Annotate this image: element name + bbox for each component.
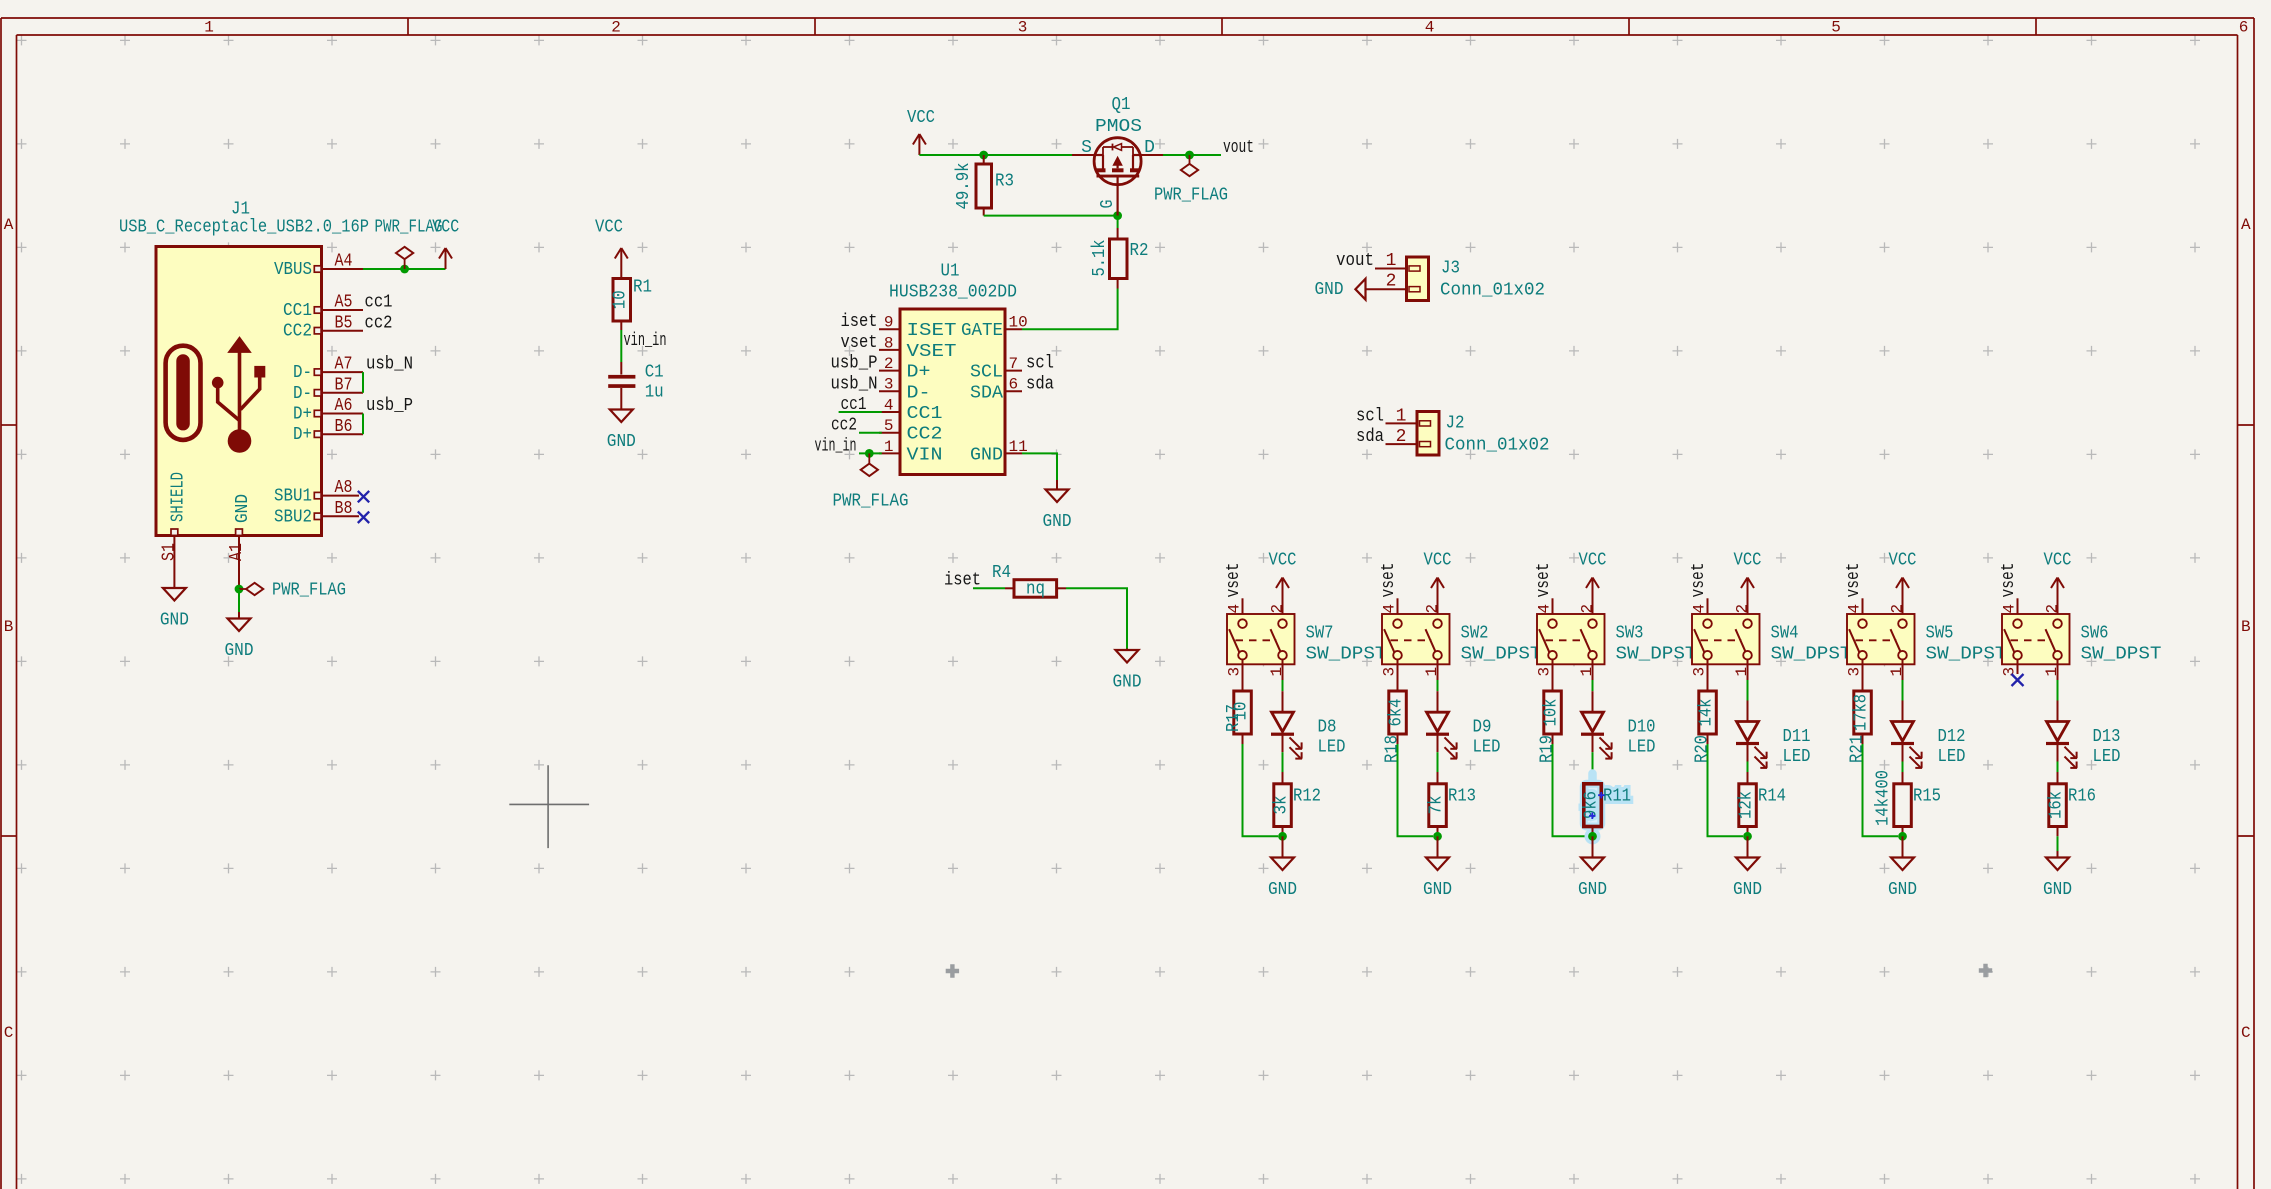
svg-text:CC1: CC1	[283, 301, 312, 321]
svg-text:PMOS: PMOS	[1095, 117, 1142, 137]
svg-text:1: 1	[204, 19, 214, 37]
svg-text:6: 6	[1009, 376, 1019, 394]
svg-text:B8: B8	[335, 499, 353, 519]
svg-text:SW3: SW3	[1616, 624, 1644, 644]
svg-text:GND: GND	[1268, 880, 1297, 900]
svg-text:G: G	[1098, 200, 1118, 209]
svg-text:D+: D+	[907, 363, 931, 383]
svg-text:10: 10	[1232, 702, 1252, 721]
svg-text:vout: vout	[1336, 251, 1374, 271]
svg-text:6k4: 6k4	[1387, 699, 1407, 727]
svg-text:2: 2	[1734, 604, 1752, 614]
svg-text:R4: R4	[992, 563, 1011, 583]
svg-text:3: 3	[884, 376, 894, 394]
svg-text:VCC: VCC	[1269, 551, 1297, 571]
svg-text:4: 4	[1691, 604, 1709, 614]
svg-text:PWR_FLAG: PWR_FLAG	[1154, 186, 1228, 206]
svg-text:1: 1	[2043, 667, 2061, 677]
svg-text:2: 2	[884, 355, 894, 373]
svg-text:D-: D-	[907, 383, 931, 403]
svg-text:R16: R16	[2068, 787, 2096, 807]
svg-text:7: 7	[1009, 355, 1019, 373]
svg-text:A7: A7	[335, 355, 353, 375]
svg-text:8: 8	[884, 334, 894, 352]
svg-text:R3: R3	[995, 172, 1014, 192]
svg-text:usb_N: usb_N	[831, 374, 878, 394]
svg-text:GATE: GATE	[961, 321, 1003, 341]
svg-text:2: 2	[1579, 604, 1597, 614]
svg-text:C1: C1	[645, 363, 664, 383]
svg-text:B: B	[2241, 618, 2251, 636]
svg-text:D+: D+	[293, 405, 312, 425]
svg-text:A6: A6	[335, 396, 353, 416]
svg-text:3: 3	[1018, 19, 1028, 37]
svg-text:4: 4	[1226, 604, 1244, 614]
svg-text:R2: R2	[1130, 241, 1149, 261]
svg-text:GND: GND	[1423, 880, 1452, 900]
svg-text:CC1: CC1	[907, 404, 943, 424]
svg-text:SW_DPST: SW_DPST	[1306, 645, 1387, 665]
svg-text:SW7: SW7	[1306, 624, 1334, 644]
svg-text:2: 2	[1396, 427, 1407, 447]
svg-text:4: 4	[1536, 604, 1554, 614]
svg-text:GND: GND	[1315, 280, 1344, 300]
svg-text:LED: LED	[2093, 747, 2121, 767]
svg-text:VCC: VCC	[432, 218, 459, 238]
svg-text:D13: D13	[2093, 727, 2121, 747]
svg-text:S1: S1	[160, 543, 180, 561]
svg-text:2: 2	[2044, 604, 2062, 614]
svg-text:3: 3	[1381, 667, 1399, 677]
svg-text:A: A	[2241, 216, 2251, 234]
svg-text:SW_DPST: SW_DPST	[2081, 645, 2162, 665]
svg-text:R15: R15	[1913, 787, 1941, 807]
svg-text:LED: LED	[1473, 738, 1501, 758]
svg-text:R21: R21	[1847, 735, 1867, 763]
svg-text:5.1k: 5.1k	[1090, 240, 1110, 277]
svg-text:17k8: 17k8	[1852, 694, 1872, 731]
svg-text:PWR_FLAG: PWR_FLAG	[833, 492, 909, 512]
svg-text:SW_DPST: SW_DPST	[1616, 645, 1697, 665]
svg-text:3k: 3k	[1272, 796, 1292, 815]
svg-text:LED: LED	[1938, 747, 1966, 767]
svg-text:7k: 7k	[1427, 796, 1447, 815]
svg-text:ISET: ISET	[907, 321, 957, 341]
svg-text:A8: A8	[335, 478, 353, 498]
svg-text:3: 3	[1226, 667, 1244, 677]
svg-text:GND: GND	[233, 494, 253, 523]
svg-text:SHIELD: SHIELD	[169, 472, 189, 522]
svg-text:1: 1	[1578, 667, 1596, 677]
svg-text:B6: B6	[335, 417, 353, 437]
svg-text:A1: A1	[227, 543, 247, 561]
svg-text:B: B	[4, 618, 14, 636]
svg-text:nq: nq	[1026, 580, 1045, 600]
svg-text:vset: vset	[1379, 563, 1399, 598]
svg-text:cc1: cc1	[365, 293, 393, 313]
svg-text:GND: GND	[2043, 880, 2072, 900]
svg-text:vin_in: vin_in	[815, 436, 857, 456]
svg-text:vin_in: vin_in	[624, 331, 667, 351]
svg-text:sda: sda	[1356, 427, 1384, 447]
svg-text:VCC: VCC	[1734, 551, 1762, 571]
svg-text:1: 1	[1268, 667, 1286, 677]
svg-text:R13: R13	[1448, 787, 1476, 807]
svg-text:14k400: 14k400	[1874, 770, 1894, 826]
svg-text:D12: D12	[1938, 727, 1966, 747]
svg-text:R1: R1	[633, 278, 652, 298]
svg-text:D+: D+	[293, 425, 312, 445]
svg-text:CC2: CC2	[907, 425, 943, 445]
svg-text:HUSB238_002DD: HUSB238_002DD	[889, 283, 1017, 303]
svg-text:A4: A4	[335, 252, 353, 272]
svg-text:SW5: SW5	[1926, 624, 1954, 644]
svg-text:3: 3	[1536, 667, 1554, 677]
svg-text:vset: vset	[841, 333, 878, 353]
svg-text:D-: D-	[293, 363, 312, 383]
svg-text:SW4: SW4	[1771, 624, 1799, 644]
svg-text:cc2: cc2	[365, 313, 393, 333]
svg-text:GND: GND	[225, 641, 254, 661]
svg-text:VCC: VCC	[1889, 551, 1917, 571]
svg-text:C: C	[4, 1024, 14, 1042]
svg-text:C: C	[2241, 1024, 2251, 1042]
svg-text:R12: R12	[1293, 787, 1321, 807]
svg-text:GND: GND	[1733, 880, 1762, 900]
svg-text:cc2: cc2	[831, 416, 857, 436]
svg-text:Conn_01x02: Conn_01x02	[1440, 281, 1545, 301]
svg-text:CC2: CC2	[283, 322, 312, 342]
svg-text:5: 5	[884, 417, 894, 435]
svg-text:4: 4	[2001, 604, 2019, 614]
svg-text:R19: R19	[1537, 735, 1557, 763]
svg-text:A5: A5	[335, 293, 353, 313]
svg-text:SW2: SW2	[1461, 624, 1489, 644]
svg-text:1u: 1u	[645, 383, 664, 403]
svg-text:J1: J1	[231, 200, 250, 220]
svg-text:S: S	[1081, 138, 1092, 158]
svg-text:usb_P: usb_P	[366, 396, 413, 416]
svg-text:SBU1: SBU1	[274, 487, 312, 507]
svg-text:VCC: VCC	[595, 218, 623, 238]
svg-text:A: A	[4, 216, 14, 234]
svg-text:4: 4	[1425, 19, 1435, 37]
svg-text:scl: scl	[1026, 354, 1054, 374]
svg-text:SW_DPST: SW_DPST	[1771, 645, 1852, 665]
svg-text:16k: 16k	[2047, 791, 2067, 819]
svg-text:VBUS: VBUS	[274, 260, 312, 280]
svg-text:U1: U1	[941, 262, 960, 282]
svg-text:2: 2	[1424, 604, 1442, 614]
svg-text:49.9k: 49.9k	[954, 163, 974, 210]
svg-text:D8: D8	[1318, 718, 1337, 738]
svg-text:SW_DPST: SW_DPST	[1926, 645, 2007, 665]
svg-text:VCC: VCC	[1424, 551, 1452, 571]
svg-text:sda: sda	[1026, 374, 1054, 394]
svg-text:LED: LED	[1628, 738, 1656, 758]
svg-text:VCC: VCC	[907, 108, 935, 128]
svg-text:USB_C_Receptacle_USB2.0_16P: USB_C_Receptacle_USB2.0_16P	[119, 218, 369, 238]
svg-text:2: 2	[1269, 604, 1287, 614]
svg-text:6: 6	[2239, 19, 2249, 37]
svg-text:VCC: VCC	[1579, 551, 1607, 571]
svg-text:usb_N: usb_N	[366, 355, 413, 375]
svg-text:R14: R14	[1758, 787, 1786, 807]
svg-text:5: 5	[1831, 19, 1841, 37]
svg-text:R20: R20	[1692, 735, 1712, 763]
svg-text:10: 10	[610, 290, 630, 309]
svg-text:1: 1	[884, 438, 894, 456]
svg-text:PWR_FLAG: PWR_FLAG	[272, 581, 346, 601]
svg-text:usb_P: usb_P	[831, 354, 878, 374]
svg-text:Q1: Q1	[1112, 95, 1131, 115]
svg-text:Conn_01x02: Conn_01x02	[1445, 436, 1550, 456]
svg-text:10: 10	[1009, 314, 1028, 332]
svg-text:SDA: SDA	[970, 383, 1003, 403]
svg-text:LED: LED	[1318, 738, 1346, 758]
svg-text:2: 2	[1889, 604, 1907, 614]
svg-text:LED: LED	[1783, 747, 1811, 767]
svg-text:vset: vset	[1844, 563, 1864, 598]
svg-text:VCC: VCC	[2044, 551, 2072, 571]
svg-text:SBU2: SBU2	[274, 507, 312, 527]
svg-text:4: 4	[884, 396, 894, 414]
svg-text:GND: GND	[607, 432, 636, 452]
svg-text:vset: vset	[1999, 563, 2019, 598]
svg-text:1: 1	[1386, 251, 1397, 271]
svg-text:R18: R18	[1382, 735, 1402, 763]
svg-text:GND: GND	[1888, 880, 1917, 900]
svg-text:scl: scl	[1356, 406, 1384, 426]
svg-text:cc1: cc1	[841, 395, 867, 415]
svg-text:B7: B7	[335, 375, 353, 395]
svg-text:14k: 14k	[1697, 699, 1717, 727]
svg-text:R11: R11	[1603, 787, 1631, 807]
svg-text:9: 9	[884, 314, 894, 332]
svg-text:GND: GND	[970, 445, 1003, 465]
svg-text:D10: D10	[1628, 718, 1656, 738]
svg-text:1: 1	[1423, 667, 1441, 677]
svg-text:VSET: VSET	[907, 342, 957, 362]
svg-text:D11: D11	[1783, 727, 1811, 747]
svg-text:J3: J3	[1441, 259, 1460, 279]
svg-text:4: 4	[1846, 604, 1864, 614]
svg-text:GND: GND	[1578, 880, 1607, 900]
svg-text:VIN: VIN	[907, 445, 943, 465]
svg-text:3: 3	[1846, 667, 1864, 677]
svg-text:B5: B5	[335, 313, 353, 333]
svg-text:1: 1	[1733, 667, 1751, 677]
svg-text:3: 3	[2001, 667, 2019, 677]
svg-text:1: 1	[1396, 406, 1407, 426]
svg-text:vset: vset	[1534, 563, 1554, 598]
svg-text:10k: 10k	[1542, 699, 1562, 727]
svg-text:GND: GND	[160, 611, 189, 631]
svg-text:4: 4	[1381, 604, 1399, 614]
svg-text:1: 1	[1888, 667, 1906, 677]
svg-text:vout: vout	[1223, 138, 1254, 158]
svg-text:vset: vset	[1224, 563, 1244, 598]
svg-text:SW_DPST: SW_DPST	[1461, 645, 1542, 665]
svg-text:GND: GND	[1113, 673, 1142, 693]
svg-text:12k: 12k	[1737, 791, 1757, 819]
svg-text:2: 2	[1386, 272, 1397, 292]
svg-text:GND: GND	[1043, 512, 1072, 532]
svg-text:3: 3	[1691, 667, 1709, 677]
svg-text:vset: vset	[1689, 563, 1709, 598]
svg-text:D9: D9	[1473, 718, 1492, 738]
svg-text:D-: D-	[293, 384, 312, 404]
svg-text:SW6: SW6	[2081, 624, 2109, 644]
svg-text:SCL: SCL	[970, 363, 1003, 383]
svg-text:J2: J2	[1446, 414, 1465, 434]
svg-text:2: 2	[611, 19, 621, 37]
svg-text:iset: iset	[841, 312, 878, 332]
